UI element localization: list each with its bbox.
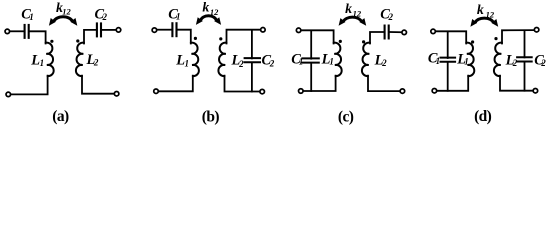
svg-text:1: 1: [185, 58, 190, 68]
polarity dot L2 (d): [494, 37, 497, 40]
wire L1 bottom to port 1' (b): [159, 76, 193, 92]
wire C2 to bottom rail (b): [251, 63, 253, 91]
svg-text:k: k: [202, 1, 209, 16]
svg-text:12: 12: [210, 7, 219, 17]
wire top rail to C2 (b): [251, 31, 253, 59]
inductor L2 (b): [218, 43, 226, 76]
inductor L1 (b): [191, 43, 199, 76]
port 1 terminal (b): [152, 28, 157, 32]
inductor L1 (a): [46, 43, 54, 76]
coupling arrow k12 (b): [196, 16, 221, 25]
inductor L1 (c): [334, 43, 342, 76]
svg-text:(d): (d): [474, 108, 492, 125]
svg-text:1: 1: [176, 11, 181, 21]
svg-text:(b): (b): [202, 109, 220, 126]
wire port1 to L1 top (d): [436, 31, 466, 43]
port 2' terminal (c): [400, 89, 405, 94]
port 2' terminal (b): [260, 89, 265, 94]
wire L1 bottom to port 1' (d): [437, 76, 468, 91]
capacitor C1 (a): [25, 24, 29, 39]
svg-text:2: 2: [93, 58, 99, 68]
capacitor C2 (b): [244, 58, 261, 62]
svg-text:2: 2: [102, 12, 108, 22]
wire C2 to port 2 (c): [390, 31, 402, 33]
wire port2 to C2 (a): [102, 29, 116, 31]
port 2 terminal (d): [534, 27, 539, 32]
svg-text:12: 12: [353, 8, 362, 18]
capacitor C2 (c): [385, 25, 389, 40]
capacitor C2 (a): [97, 22, 101, 37]
svg-text:2: 2: [512, 58, 518, 68]
svg-text:1: 1: [29, 12, 34, 22]
wire L2 bottom to port 2' (c): [368, 76, 399, 92]
coupling arrow k12 (d): [470, 18, 498, 27]
wire L2 top to C2 (c): [370, 32, 383, 44]
inductor L2 (d): [494, 43, 502, 76]
polarity dot L2 (b): [219, 37, 222, 40]
port 2' terminal (a): [114, 91, 119, 96]
wire L2 bottom to port 2' (a): [82, 76, 114, 94]
wire port1 to L1 top (c): [302, 30, 334, 43]
wire C1 to bottom rail (c): [310, 64, 312, 91]
capacitor C1 (b): [172, 22, 176, 37]
wire L2 bottom to port 2' (d): [500, 76, 532, 91]
port 1' terminal (d): [432, 88, 437, 93]
svg-text:1: 1: [436, 56, 441, 66]
wire top rail to C2 (d): [524, 31, 526, 58]
coupling arrow k12 (a): [49, 17, 77, 26]
wire L1 bottom to port 1' (a): [11, 76, 47, 95]
capacitor C1 (c): [301, 58, 319, 62]
wire port1 to C1 (a): [10, 30, 23, 32]
svg-text:k: k: [477, 3, 484, 18]
polarity dot L1 (a): [50, 40, 53, 43]
port 1' terminal (b): [154, 89, 159, 94]
port 2 terminal (b): [261, 28, 266, 33]
svg-text:(c): (c): [338, 109, 354, 126]
wire L2 top to port 2 (b): [227, 30, 260, 44]
port 1 terminal (a): [5, 29, 10, 34]
wire C2 to L2 top (a): [84, 30, 96, 44]
capacitor C2 (d): [516, 57, 533, 61]
svg-text:1: 1: [329, 57, 334, 67]
port 2 terminal (c): [402, 30, 407, 35]
wire port1 to C1 (b): [157, 29, 170, 31]
svg-text:2: 2: [238, 59, 244, 69]
port 1 terminal (d): [431, 29, 436, 34]
port 1' terminal (c): [299, 89, 304, 94]
svg-text:2: 2: [388, 12, 394, 22]
wire C1 to L1 top (a): [30, 31, 46, 43]
svg-text:1: 1: [299, 57, 304, 67]
port 1 terminal (c): [296, 28, 301, 33]
polarity dot L1 (d): [471, 40, 474, 43]
svg-text:2: 2: [381, 58, 387, 68]
polarity dot L2 (a): [76, 39, 79, 42]
inductor L2 (c): [362, 43, 370, 76]
svg-text:k: k: [345, 2, 352, 17]
wire C2 to bottom rail (d): [524, 62, 526, 91]
svg-text:2: 2: [269, 58, 275, 68]
capacitor C1 (d): [440, 58, 457, 62]
wire C1 to bottom rail (d): [447, 63, 449, 91]
wire L1 bottom to port 1' (c): [304, 76, 336, 91]
polarity dot L1 (c): [339, 40, 342, 43]
coupling arrow k12 (c): [339, 17, 367, 26]
polarity dot L2 (c): [362, 40, 365, 43]
inductor L1 (d): [466, 43, 474, 76]
svg-text:1: 1: [40, 58, 45, 68]
port 1' terminal (a): [6, 92, 11, 97]
wire L2 top to port 2 (d): [502, 30, 534, 43]
svg-text:12: 12: [486, 9, 495, 19]
port 2' terminal (d): [533, 88, 538, 93]
wire top rail to C1 (d): [447, 32, 449, 58]
wire top rail to C1 (c): [310, 31, 312, 59]
wire L2 bottom to port 2' (b): [225, 76, 260, 92]
svg-text:2: 2: [540, 58, 546, 68]
svg-text:(a): (a): [52, 108, 69, 125]
port 2 terminal (a): [116, 28, 121, 33]
wire C1 to L1 top (b): [178, 30, 191, 44]
svg-text:12: 12: [62, 6, 71, 16]
svg-text:1: 1: [464, 57, 469, 67]
polarity dot L1 (b): [194, 37, 197, 40]
inductor L2 (a): [76, 43, 84, 76]
